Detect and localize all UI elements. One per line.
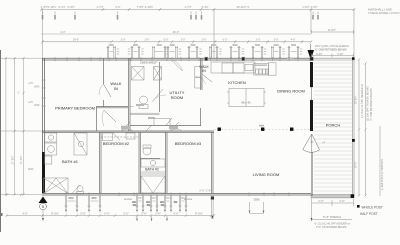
svg-text:+2½’: +2½’ (28, 100, 34, 104)
svg-text:9’-0½”: 9’-0½” (51, 211, 59, 215)
svg-text:HALF POST: HALF POST (360, 212, 378, 216)
svg-text:DINING ROOM: DINING ROOM (277, 89, 305, 94)
svg-text:+2½’: +2½’ (28, 81, 34, 85)
svg-text:2’-6”: 2’-6” (141, 211, 147, 215)
svg-text:3’-0”: 3’-0” (123, 211, 129, 215)
svg-text:1’-7½”: 1’-7½” (184, 5, 191, 9)
svg-text:½” OSB RETWEEN BEAMS: ½” OSB RETWEEN BEAMS (315, 47, 347, 51)
svg-text:5’-0”: 5’-0” (115, 5, 120, 9)
svg-text:7’-5½” 3’-10½”: 7’-5½” 3’-10½” (137, 5, 154, 9)
svg-text:1’-9½” 4’-0½”: 1’-9½” 4’-0½” (302, 5, 318, 9)
svg-text:5’-0”: 5’-0” (164, 39, 169, 42)
svg-text:8’-0½”: 8’-0½” (195, 211, 203, 215)
svg-text:13’-0”: 13’-0” (354, 162, 358, 169)
svg-text:3 PIECE (MODEL LAYOUT): 3 PIECE (MODEL LAYOUT) (368, 11, 400, 15)
svg-text:2’-6”: 2’-6” (145, 39, 150, 42)
svg-text:3040: 3040 (68, 197, 74, 200)
svg-text:BEDROOM #2: BEDROOM #2 (103, 141, 130, 146)
svg-text:4’-6”: 4’-6” (173, 211, 179, 215)
svg-text:window: window (184, 198, 193, 201)
svg-text:4’-6”: 4’-6” (291, 39, 296, 42)
svg-text:12’ 2x12 #2 SPF HEADER w/: 12’ 2x12 #2 SPF HEADER w/ (360, 84, 364, 118)
svg-text:BEDROOM #3: BEDROOM #3 (175, 141, 202, 146)
svg-text:3’-0”: 3’-0” (181, 39, 186, 42)
svg-text:ROOM: ROOM (171, 95, 183, 100)
svg-text:3040: 3040 (34, 104, 40, 107)
svg-text:26’-0”: 26’-0” (173, 31, 180, 34)
svg-text:17’-0½”: 17’-0½” (19, 155, 23, 164)
svg-text:1’-7½”: 1’-7½” (96, 5, 103, 9)
svg-text:3040: 3040 (91, 197, 97, 200)
svg-text:6’-0”: 6’-0” (223, 39, 228, 42)
svg-text:3’-0”: 3’-0” (121, 39, 126, 42)
svg-text:TYP. ON BORDER BEAMS: TYP. ON BORDER BEAMS (316, 226, 347, 229)
svg-text:2’-6”: 2’-6” (199, 189, 204, 193)
svg-text:LINEN SHELF: LINEN SHELF (140, 61, 157, 65)
svg-text:WHOLE POST: WHOLE POST (362, 205, 383, 209)
svg-text:1’-0”: 1’-0” (318, 199, 324, 203)
svg-text:3’-4½”: 3’-4½” (201, 5, 208, 9)
svg-text:½” OSB BETWEEN BEAMS: ½” OSB BETWEEN BEAMS (369, 88, 373, 121)
svg-text:3’-10”: 3’-10” (316, 53, 323, 56)
svg-text:27’-6½”: 27’-6½” (10, 155, 14, 164)
svg-text:3’-0”: 3’-0” (256, 39, 261, 42)
svg-text:2’-6”: 2’-6” (339, 199, 345, 203)
svg-text:4’-0”: 4’-0” (60, 31, 65, 34)
svg-text:LIVING ROOM: LIVING ROOM (253, 172, 280, 177)
svg-text:+4’: +4’ (322, 142, 326, 145)
svg-text:3’-10”: 3’-10” (337, 53, 344, 56)
svg-text:8’-0½”: 8’-0½” (328, 28, 336, 32)
svg-text:24’-0”: 24’-0” (73, 39, 79, 42)
svg-text:6’-4½”: 6’-4½” (67, 5, 74, 9)
svg-text:PRIMARY BEDROOM: PRIMARY BEDROOM (55, 106, 95, 111)
svg-text:MARSHALL LANE: MARSHALL LANE (368, 7, 392, 11)
svg-text:2’: 2’ (18, 91, 20, 95)
svg-text:½” (2) 2x12 #2 SPF HEADER w/: ½” (2) 2x12 #2 SPF HEADER w/ (314, 222, 350, 226)
svg-text:IN: IN (202, 69, 206, 73)
svg-text:2’-6”: 2’-6” (202, 39, 207, 42)
svg-text:3’-1½”: 3’-1½” (58, 5, 65, 9)
svg-text:5’-10½”: 5’-10½” (48, 5, 57, 9)
svg-text:5’-6”: 5’-6” (104, 211, 110, 215)
svg-text:B: B (42, 205, 45, 209)
svg-text:5’-6” PORCH: 5’-6” PORCH (323, 215, 341, 219)
svg-text:KITCHEN: KITCHEN (228, 80, 246, 85)
svg-text:3056: 3056 (253, 198, 260, 202)
svg-text:3040: 3040 (28, 168, 34, 171)
svg-text:window: window (124, 198, 133, 201)
svg-text:4’-0”: 4’-0” (22, 211, 28, 215)
svg-text:3’-0”: 3’-0” (274, 39, 279, 42)
svg-text:(2) 2x6 SPF TRIM BY BEAMS: (2) 2x6 SPF TRIM BY BEAMS (366, 86, 370, 121)
svg-text:26’-10½” 6’: 26’-10½” 6’ (237, 5, 250, 9)
svg-text:2’-6”: 2’-6” (206, 189, 211, 193)
svg-text:96 x 42: 96 x 42 (241, 101, 251, 105)
svg-text:BATH #2: BATH #2 (145, 168, 159, 172)
svg-text:13’-6½”: 13’-6½” (354, 95, 358, 104)
svg-text:3040: 3040 (34, 86, 40, 89)
svg-text:PORCH: PORCH (326, 123, 341, 128)
svg-text:3’-0”: 3’-0” (80, 211, 86, 215)
svg-text:BATH #1: BATH #1 (62, 159, 79, 164)
svg-text:10½” (2) 5¼ x 9½ GLULAM w/: 10½” (2) 5¼ x 9½ GLULAM w/ (315, 44, 349, 48)
svg-text:2’-0”: 2’-0” (155, 211, 161, 215)
svg-text:2- 8x8 POST w/ SIMPSON: 2- 8x8 POST w/ SIMPSON (380, 159, 384, 190)
svg-text:IN: IN (114, 86, 118, 91)
